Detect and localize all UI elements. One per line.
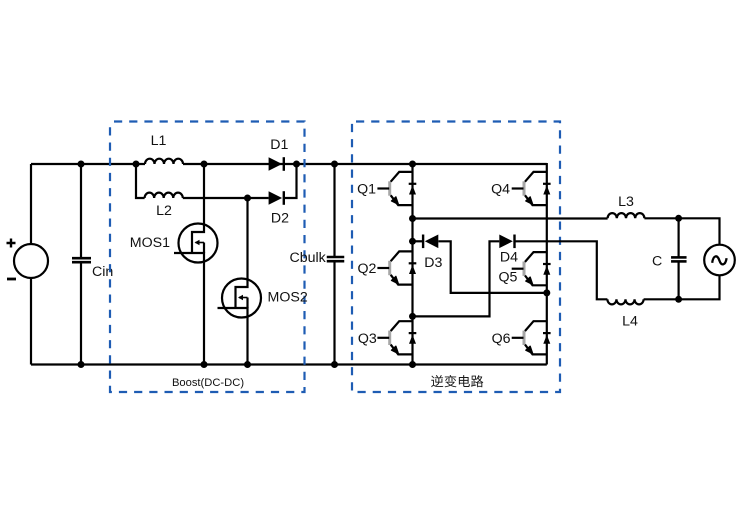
inductor L1 bbox=[145, 159, 183, 164]
wire D3 to right leg bbox=[438, 241, 546, 293]
transistor MOS1 (MOSFET) bbox=[174, 224, 218, 263]
svg-text:Q6: Q6 bbox=[492, 331, 511, 347]
node Cin bottom bbox=[78, 361, 85, 368]
dc source V1 bbox=[7, 164, 49, 365]
transistor Q4 bbox=[512, 172, 551, 205]
capacitor C branch bbox=[677, 218, 679, 256]
svg-text:L4: L4 bbox=[622, 314, 638, 330]
diode D2 bbox=[269, 191, 284, 205]
svg-text:Q5: Q5 bbox=[498, 270, 517, 286]
transistor Q6 bbox=[512, 321, 551, 354]
wire L4 to AC bbox=[644, 276, 720, 300]
wire bottom rail bbox=[31, 363, 547, 365]
wire D3 branch bbox=[413, 240, 424, 242]
svg-text:D1: D1 bbox=[270, 137, 288, 153]
node MOS2 source bbox=[244, 361, 251, 368]
label 逆变电路 bbox=[431, 375, 483, 387]
node left leg top bbox=[409, 161, 416, 168]
node C top bbox=[675, 215, 682, 222]
svg-text:D4: D4 bbox=[500, 250, 518, 266]
svg-text:MOS1: MOS1 bbox=[130, 235, 170, 251]
node C bottom bbox=[675, 296, 682, 303]
svg-text:D2: D2 bbox=[271, 211, 289, 227]
svg-text:L3: L3 bbox=[618, 194, 634, 210]
wire MOS2 source bbox=[246, 317, 248, 365]
wire top rail bbox=[31, 163, 145, 165]
node MOS1 source bbox=[201, 361, 208, 368]
node D2 join bbox=[293, 161, 300, 168]
svg-text:D3: D3 bbox=[424, 255, 442, 271]
node Cin top bbox=[78, 161, 85, 168]
svg-text:MOS2: MOS2 bbox=[268, 290, 308, 306]
wire leg1 low node to D4 bbox=[413, 241, 500, 316]
node right leg mid-low bbox=[543, 289, 550, 296]
diode D3 bbox=[423, 235, 438, 249]
node D3 anode-side bbox=[409, 238, 416, 245]
diode D4 bbox=[499, 235, 514, 249]
capacitor Cbulk bbox=[327, 257, 345, 261]
inductor L4 bbox=[607, 299, 643, 304]
transistor Q1 bbox=[377, 172, 416, 205]
node MOS1 drain bbox=[201, 161, 208, 168]
wire output upper (leg1 midpoint to L3) bbox=[413, 217, 608, 219]
svg-text:Q2: Q2 bbox=[357, 261, 376, 277]
wire L2 branch bbox=[136, 164, 145, 198]
wire MOS2 drain bbox=[246, 198, 248, 279]
svg-text:L2: L2 bbox=[156, 203, 172, 219]
node MOS2 drain bbox=[244, 195, 251, 202]
capacitor Cbulk branch bbox=[333, 164, 335, 256]
transistor Q2 bbox=[377, 251, 416, 284]
svg-text:C: C bbox=[652, 254, 662, 270]
node Cbulk bottom bbox=[331, 361, 338, 368]
wire D2 up to rail bbox=[284, 164, 297, 198]
svg-text:L1: L1 bbox=[151, 133, 167, 149]
capacitor Cin bbox=[72, 258, 91, 262]
node L split bbox=[133, 161, 140, 168]
transistor Q3 bbox=[377, 321, 416, 354]
node left leg bottom bbox=[409, 361, 416, 368]
svg-text:Boost(DC-DC): Boost(DC-DC) bbox=[172, 377, 244, 389]
wire inverter left leg bbox=[411, 164, 413, 365]
transistor Q5 bbox=[512, 252, 551, 285]
svg-text:Q1: Q1 bbox=[357, 182, 376, 198]
ac source V2 bbox=[704, 245, 735, 276]
wire MOS1 drain bbox=[203, 164, 205, 224]
wire output lower (D4 to L4) bbox=[515, 241, 608, 299]
capacitor Cin branch bbox=[80, 164, 82, 257]
wire L3 to AC bbox=[644, 218, 719, 245]
inductor L2 bbox=[145, 193, 183, 198]
svg-text:Cbulk: Cbulk bbox=[290, 250, 327, 266]
wire inverter right leg bbox=[546, 163, 548, 365]
node Cbulk top bbox=[331, 161, 338, 168]
diode D1 bbox=[269, 157, 284, 171]
svg-text:Q4: Q4 bbox=[491, 182, 510, 198]
inductor L3 bbox=[608, 213, 645, 218]
wire L2 to D2 bbox=[183, 197, 269, 199]
transistor MOS2 (MOSFET) bbox=[218, 279, 262, 318]
capacitor C bbox=[671, 257, 687, 261]
node upper output bbox=[409, 215, 416, 222]
boost stage dashed box bbox=[110, 122, 305, 393]
node leg1 low bbox=[409, 313, 416, 320]
inverter stage dashed box bbox=[352, 122, 560, 393]
svg-text:Q3: Q3 bbox=[358, 331, 377, 347]
wire MOS1 source bbox=[203, 262, 205, 365]
